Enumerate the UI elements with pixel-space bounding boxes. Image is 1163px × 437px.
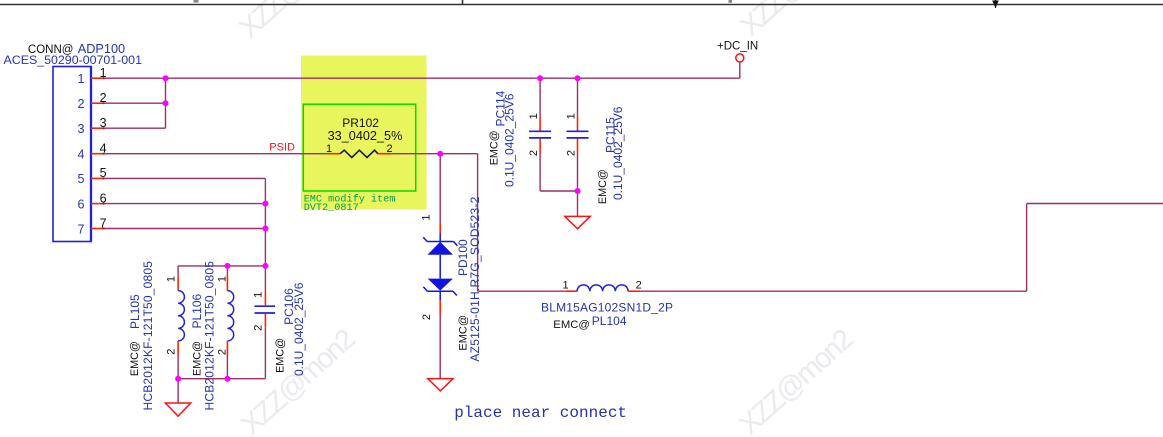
wire exit right xyxy=(1027,203,1163,205)
junction PL106 top xyxy=(224,263,230,269)
pin stub 4 xyxy=(91,153,103,155)
svg-text:6: 6 xyxy=(78,197,85,211)
wire PSID vertical drop xyxy=(477,154,479,292)
wire filter top rail xyxy=(178,265,265,267)
pin 1 PC114 xyxy=(528,113,540,119)
junction pin6 tie xyxy=(262,201,268,207)
border zone letter partial left xyxy=(194,0,199,3)
svg-text:PL105: PL105 xyxy=(128,294,142,329)
value AZ5125-01H.R7G_SOD523-2 xyxy=(468,196,482,361)
svg-text:EMC@: EMC@ xyxy=(274,338,286,373)
wire PL106 top lead xyxy=(226,266,228,276)
svg-text:5: 5 xyxy=(100,166,107,180)
svg-text:place near connect: place near connect xyxy=(454,404,627,422)
value 0.1U_0402_25V6 PC115 xyxy=(611,106,625,200)
border arrow marker xyxy=(992,0,999,8)
pin 2 PR102 xyxy=(386,143,392,155)
svg-text:0.1U_0402_25V6: 0.1U_0402_25V6 xyxy=(611,106,625,200)
wire PC106 bottom lead xyxy=(264,328,266,379)
wire PSID after resistor xyxy=(391,153,477,155)
wire ground stub PL105 xyxy=(177,379,179,403)
svg-text:4: 4 xyxy=(78,148,85,162)
refdes PC114 rotated xyxy=(494,90,508,126)
inductor PL104 xyxy=(565,285,640,291)
ground under PD100 xyxy=(428,379,453,391)
wire PL105 top lead xyxy=(177,266,179,276)
pin stub 5 xyxy=(91,177,103,179)
wire PL105 bottom lead xyxy=(177,356,179,379)
junction pins1-2 tie xyxy=(163,100,169,106)
junction PSID diode tap xyxy=(437,151,443,157)
svg-text:EMC@: EMC@ xyxy=(488,130,500,165)
value 0.1U_0402_25V6 PC106 xyxy=(292,282,306,376)
refdes PC106 rotated xyxy=(282,288,296,325)
wire PL106 bottom lead xyxy=(226,356,228,379)
pin stub 6 xyxy=(91,203,103,205)
junction pin7 tie xyxy=(262,226,268,232)
svg-text:6: 6 xyxy=(100,191,107,205)
wire pin7 horizontal xyxy=(103,228,265,230)
pin 2 PL106 xyxy=(217,349,229,355)
refdes PL104 xyxy=(592,314,627,328)
pin 2 PD100 xyxy=(421,314,433,320)
net label PSID xyxy=(269,141,295,153)
label EMC@ PC114 xyxy=(488,130,500,165)
svg-text:4: 4 xyxy=(100,142,107,156)
label +DC_IN xyxy=(717,40,758,52)
junction ground rail left xyxy=(175,376,181,382)
pin 2 PC114 xyxy=(528,150,540,156)
svg-text:PL104: PL104 xyxy=(592,314,627,328)
svg-text:HCB2012KF-121T50_0805: HCB2012KF-121T50_0805 xyxy=(202,261,216,411)
note place near connect xyxy=(454,404,627,422)
wire from PL104 pin2 xyxy=(640,290,1026,292)
wire pin6 horizontal xyxy=(103,203,265,205)
pin stub 1 xyxy=(91,77,103,79)
pin 1 PR102 xyxy=(326,143,332,155)
wire PC106 top lead xyxy=(264,266,266,292)
pin stub 7 xyxy=(91,228,103,230)
wire pin numbers xyxy=(100,66,107,230)
svg-text:EMC@: EMC@ xyxy=(553,319,590,331)
connector pin numbers inside xyxy=(78,72,85,236)
svg-text:1: 1 xyxy=(528,113,540,119)
wire pin5 horizontal xyxy=(103,177,265,179)
svg-text:2: 2 xyxy=(78,97,85,111)
wire net DC_IN top rail xyxy=(103,77,740,79)
svg-text:1: 1 xyxy=(326,143,332,155)
svg-text:PSID: PSID xyxy=(269,141,295,153)
ground under PC115 xyxy=(565,216,590,228)
label CONN@ xyxy=(28,44,74,56)
connector ADP100 body xyxy=(53,67,91,242)
svg-text:33_0402_5%: 33_0402_5% xyxy=(328,129,403,143)
inductor PL105 xyxy=(178,276,184,355)
value 33_0402_5% xyxy=(328,129,403,143)
label EMC@ PC115 xyxy=(597,169,609,204)
label EMC@ PL105 xyxy=(129,341,141,376)
wire PC114 bottom lead xyxy=(539,153,541,191)
wire pins5-7 vertical tie xyxy=(264,178,266,266)
wire net PSID pin4 horizontal xyxy=(103,153,327,155)
svg-text:7: 7 xyxy=(78,222,85,236)
pin 2 PL104 xyxy=(636,279,642,291)
refdes ADP100 xyxy=(78,42,125,56)
svg-text:2: 2 xyxy=(565,150,577,156)
part BLM15AG102SN1D_2P xyxy=(541,300,673,314)
svg-text:1: 1 xyxy=(252,292,264,298)
label EMC@ PC106 xyxy=(274,338,286,373)
note EMC modify item xyxy=(304,193,396,214)
svg-text:BLM15AG102SN1D_2P: BLM15AG102SN1D_2P xyxy=(541,300,673,314)
wire to PL104 pin1 xyxy=(478,290,566,292)
refdes PC115 rotated xyxy=(604,117,618,153)
svg-text:2: 2 xyxy=(528,150,540,156)
refdes PD100 rotated xyxy=(456,239,470,276)
junction pins1-2 tie top xyxy=(163,75,169,81)
part ACES_50290-00701-001 xyxy=(4,53,143,67)
watermark XZZ@mon2 bottom-right xyxy=(733,324,859,437)
border zone letter partial right xyxy=(729,0,733,3)
junction PL106 bottom xyxy=(224,376,230,382)
pin 1 PC106 xyxy=(252,292,264,298)
resistor PR102 xyxy=(327,150,391,157)
svg-text:2: 2 xyxy=(386,143,392,155)
wire DC_IN terminal riser xyxy=(739,62,741,78)
terminal +DC_IN xyxy=(736,54,744,62)
pin 1 PL106 xyxy=(217,276,229,282)
watermark XZZ@mon2 top-right xyxy=(734,0,860,43)
svg-text:2: 2 xyxy=(252,325,264,331)
svg-text:AZ5125-01H.R7G_SOD523-2: AZ5125-01H.R7G_SOD523-2 xyxy=(468,196,482,361)
wire PC115 bottom lead to ground xyxy=(577,153,579,216)
svg-text:+DC_IN: +DC_IN xyxy=(717,40,758,52)
svg-text:1: 1 xyxy=(565,113,577,119)
svg-text:DVT2_0817: DVT2_0817 xyxy=(304,203,359,214)
pin 1 PD100 xyxy=(421,214,433,220)
refdes PR102 xyxy=(342,116,379,130)
svg-text:3: 3 xyxy=(78,122,85,136)
wire PD100 bottom lead xyxy=(439,314,441,379)
pin 2 PL105 xyxy=(166,349,178,355)
watermark XZZ@mon2 bottom-left xyxy=(235,324,361,437)
EMC modify green box xyxy=(303,104,415,191)
label EMC@ PL104 xyxy=(553,319,590,331)
pin 1 PL104 xyxy=(562,279,568,291)
svg-text:2: 2 xyxy=(166,349,178,355)
watermark XZZ@mon2 top-left xyxy=(233,0,359,45)
pin 2 PC106 xyxy=(252,325,264,331)
junction filter rail right xyxy=(262,263,268,269)
svg-text:0.1U_0402_25V6: 0.1U_0402_25V6 xyxy=(503,93,517,187)
svg-text:1: 1 xyxy=(100,66,107,80)
svg-text:1: 1 xyxy=(166,276,178,282)
svg-text:2: 2 xyxy=(217,349,229,355)
svg-text:1: 1 xyxy=(421,214,433,220)
sheet border top line xyxy=(0,4,1163,6)
wire pin3 horizontal xyxy=(103,127,165,129)
svg-text:1: 1 xyxy=(562,279,568,291)
wire pin2 horizontal xyxy=(103,102,165,104)
ground under PL105 xyxy=(165,403,190,416)
wire right riser xyxy=(1026,204,1028,292)
junction PC114 top xyxy=(537,75,543,81)
junction caps bottom xyxy=(575,188,581,194)
svg-text:EMC@: EMC@ xyxy=(597,169,609,204)
svg-text:EMC@: EMC@ xyxy=(129,341,141,376)
wire caps bottom rail xyxy=(540,190,577,192)
svg-text:2: 2 xyxy=(636,279,642,291)
label EMC@ PD100 xyxy=(458,315,470,351)
pin 1 PC115 xyxy=(565,113,577,119)
pin 1 PL105 xyxy=(166,276,178,282)
svg-text:ACES_50290-00701-001: ACES_50290-00701-001 xyxy=(4,53,143,67)
wire PC114 top lead xyxy=(539,78,541,117)
svg-text:HCB2012KF-121T50_0805: HCB2012KF-121T50_0805 xyxy=(141,261,155,411)
pin 2 PC115 xyxy=(565,150,577,156)
wire pins1-3 vertical tie xyxy=(165,78,167,128)
value 0.1U_0402_25V6 PC114 xyxy=(503,93,517,187)
refdes PL105 rotated xyxy=(128,294,142,329)
pin end dots xyxy=(103,77,105,230)
svg-text:2: 2 xyxy=(100,91,107,105)
inductor PL106 xyxy=(227,276,233,355)
label EMC@ PL106 xyxy=(192,341,204,376)
pin stub 3 xyxy=(91,127,103,129)
TVS diode PD100 xyxy=(423,224,457,314)
value HCB2012KF-121T50_0805 PL105 xyxy=(141,261,155,411)
svg-text:3: 3 xyxy=(100,116,107,130)
wire filter bottom rail xyxy=(178,378,265,380)
wire PD100 top lead xyxy=(439,154,441,224)
border zone tick xyxy=(462,0,464,5)
value HCB2012KF-121T50_0805 PL106 xyxy=(202,261,216,411)
svg-text:1: 1 xyxy=(78,72,85,86)
capacitor PC115 xyxy=(567,117,589,153)
svg-text:2: 2 xyxy=(421,314,433,320)
wire PC115 top lead xyxy=(577,78,579,117)
svg-text:7: 7 xyxy=(100,216,107,230)
svg-text:5: 5 xyxy=(78,172,85,186)
pin stub 2 xyxy=(91,102,103,104)
capacitor PC106 xyxy=(255,292,276,328)
capacitor PC114 xyxy=(529,117,551,153)
junction PC115 top xyxy=(575,75,581,81)
svg-text:1: 1 xyxy=(217,276,229,282)
svg-text:0.1U_0402_25V6: 0.1U_0402_25V6 xyxy=(292,282,306,376)
EMC highlight yellow block xyxy=(301,56,427,210)
refdes PL106 rotated xyxy=(190,293,204,328)
